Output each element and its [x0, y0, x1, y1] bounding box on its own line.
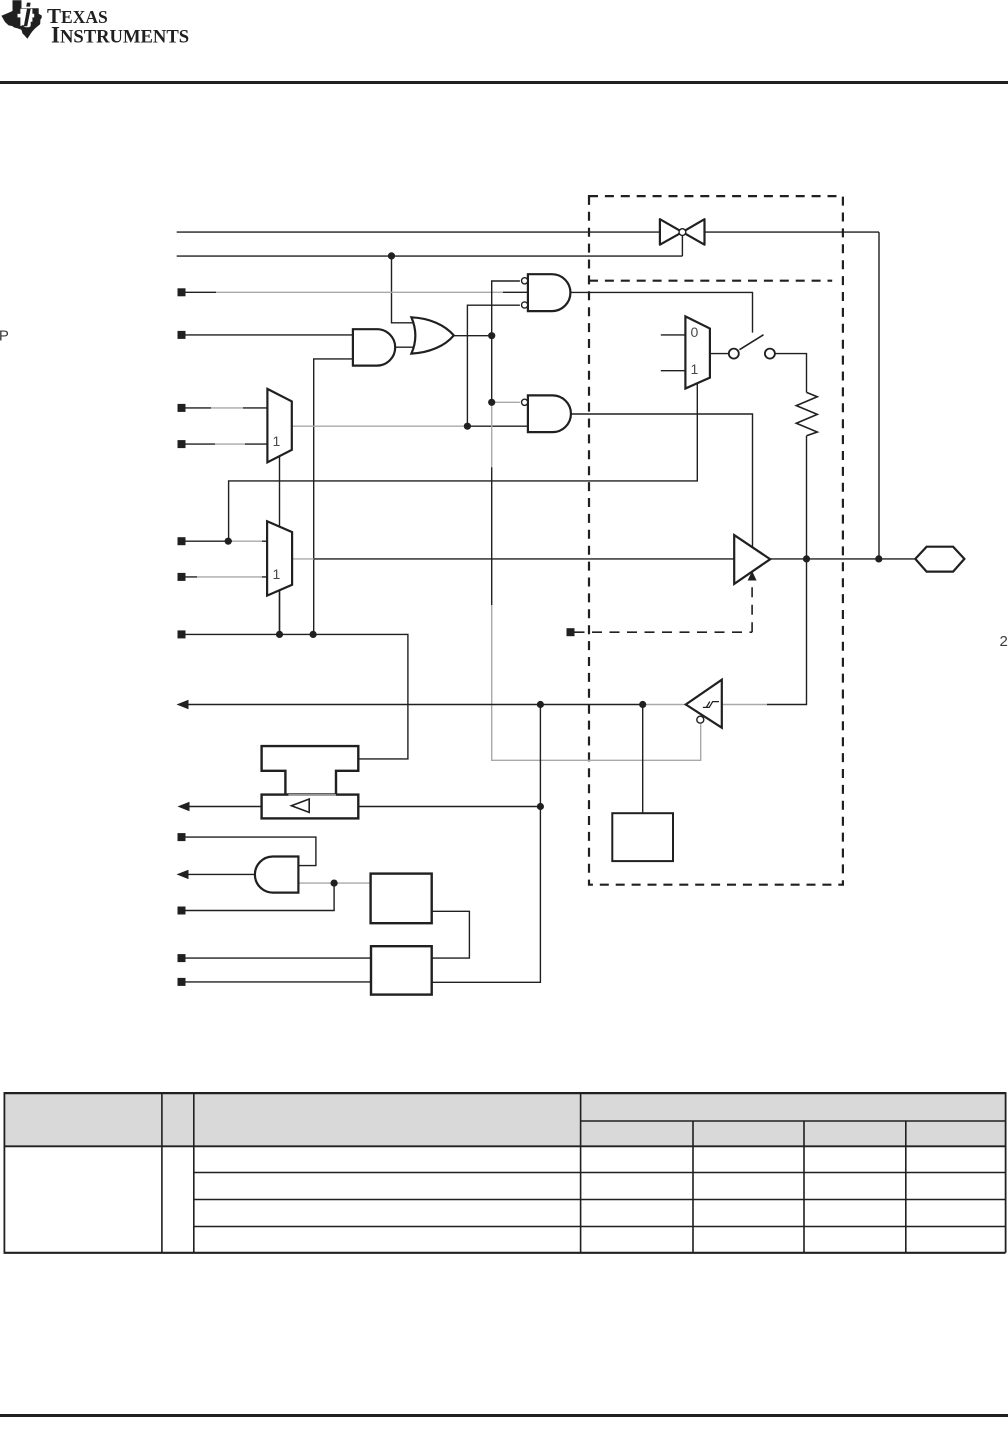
- wire: NAND G2 output to buffer enable: [571, 414, 753, 547]
- NAND gate G2: [528, 395, 571, 432]
- TI logo wordmark TEXAS INSTRUMENTS: [47, 4, 189, 48]
- junction node bus keeper line: [537, 803, 544, 810]
- wire: OR O1 output node: [454, 281, 520, 402]
- control terminal square (dashed net): [567, 628, 575, 636]
- wire: input 9 branch to B1 input net: [186, 883, 335, 910]
- input terminal square 1: [178, 288, 186, 296]
- wire: direction net to mux M3 select: [229, 383, 698, 541]
- svg-text:1: 1: [691, 361, 699, 377]
- AND gate A2 (left-pointing): [255, 857, 299, 893]
- input terminal square 4: [178, 440, 186, 448]
- svg-text:2: 2: [1000, 633, 1008, 650]
- input terminal square 3: [178, 404, 186, 412]
- wire: enable net grey path to Schmitt bubble: [492, 402, 701, 760]
- output arrow 3 (AND A2 output): [177, 870, 189, 879]
- wire: mux M1 select: [279, 456, 281, 634]
- wire: input 1 to NAND G1 middle input: [186, 291, 528, 293]
- bus keeper EN block: [262, 746, 359, 795]
- wire: bus keeper line left arrow to junction: [189, 806, 540, 808]
- junction node mux M1 output: [464, 423, 471, 430]
- input terminal square 10: [178, 954, 186, 962]
- AND gate A1: [353, 329, 395, 365]
- junction node select net A: [276, 631, 283, 638]
- pad P1 (hexagon): [915, 547, 964, 572]
- junction node on GND rail: [388, 252, 395, 259]
- parameter table header fill: [4, 1092, 1007, 1146]
- input terminal square 7: [178, 630, 186, 638]
- OR gate O1: [411, 317, 453, 353]
- svg-text:INSTRUMENTS: INSTRUMENTS: [51, 23, 189, 48]
- box B1: [371, 874, 432, 924]
- wire: net VCC rail (top horizontal): [177, 232, 879, 559]
- dashed module boundary box: [589, 196, 843, 885]
- wire: input 3 to mux M1 input 0: [186, 407, 268, 409]
- mux M2: [267, 521, 292, 595]
- dashed control line with arrow into buffer U1: [575, 581, 753, 633]
- wire: Schmitt output branch to flop box B3: [642, 705, 644, 814]
- junction node B1 input: [331, 880, 338, 887]
- box B2: [371, 946, 432, 994]
- wire: NAND G1 output to switch control: [571, 292, 753, 332]
- parameter table grid: [4, 1092, 1006, 1253]
- resistor R1: [796, 392, 817, 435]
- input terminal square 5: [178, 537, 186, 545]
- wire: AND A1 output to OR O1 input: [395, 346, 414, 348]
- input terminal square 8: [178, 833, 186, 841]
- input terminal square 9: [178, 907, 186, 915]
- TI logo bug: [1, 0, 41, 38]
- wire: pad net to Schmitt U2 input: [767, 559, 807, 705]
- bottom rule: [0, 1414, 1008, 1417]
- wire: mux M1 output to NAND G2 input: [292, 425, 468, 427]
- output buffer U1: [734, 535, 770, 584]
- bus keeper buffer block: [262, 795, 359, 819]
- input terminal square 11: [178, 978, 186, 986]
- output arrow 2 (bus keeper line): [178, 802, 190, 811]
- junction node direction net: [225, 538, 232, 545]
- inner dashed divider line: [589, 280, 832, 282]
- box B3 (flag register): [612, 813, 673, 861]
- junction node pad net B: [875, 555, 882, 562]
- output arrow 1 (input line): [177, 700, 189, 709]
- schmitt trigger U2: [686, 680, 722, 728]
- wire: AND A1 bottom input from select net: [314, 359, 353, 635]
- wire: AND A2 bottom input / box B1 input: [298, 882, 370, 884]
- wire: input 8 to AND A2 top input: [186, 837, 316, 866]
- wire: OR gate top input from rail: [392, 256, 417, 323]
- wire: input 2 to AND A1 top input: [186, 334, 353, 336]
- wire: switch S1 to resistor R1: [775, 354, 807, 393]
- junction node input line A: [639, 701, 646, 708]
- wire: AND A2 output to left arrow: [188, 873, 254, 875]
- wire: resistor R1 to pad net: [806, 436, 808, 559]
- mux M3 (0/1): [685, 316, 710, 388]
- svg-text:1: 1: [273, 566, 281, 582]
- ESD clamp D1 (bowtie): [660, 219, 705, 245]
- input terminal square 2: [178, 331, 186, 339]
- wire: input 5 to mux M2 input 0: [186, 540, 268, 542]
- junction node input line B: [537, 701, 544, 708]
- svg-text:0: 0: [691, 324, 699, 340]
- wire: NAND G1 bottom bubble input: [467, 305, 520, 426]
- wire: input 7 select net to bus keeper: [186, 634, 408, 759]
- wire: mux M2 select: [279, 589, 281, 634]
- wire: input line branch down to box B2 output: [432, 705, 541, 983]
- wire: buffer U1 output to pad: [770, 558, 915, 560]
- wire: box B1 output to box B2: [432, 911, 470, 958]
- switch S1: [729, 335, 775, 359]
- wire: input 4 to mux M1 input 1: [186, 443, 268, 445]
- wire: net GND rail (second horizontal): [177, 236, 683, 256]
- wire: mux M3 input stubs: [661, 335, 686, 371]
- input terminal square 6: [178, 573, 186, 581]
- mux M1: [267, 389, 291, 462]
- junction node select net B: [310, 631, 317, 638]
- wire: Schmitt U2 output to input line: [643, 704, 686, 706]
- wire: mux M2 output to output buffer U1: [292, 558, 314, 560]
- junction node pad net A: [803, 555, 810, 562]
- junction node OR output: [488, 332, 495, 339]
- wire: input 10 to box B2: [186, 957, 372, 959]
- junction node NAND G2 top input: [488, 399, 495, 406]
- svg-text:1: 1: [273, 433, 281, 449]
- wire: mux M3 output to switch S1: [710, 353, 729, 355]
- NAND gate G1: [528, 274, 571, 311]
- wire: input 11 to box B2: [186, 981, 372, 983]
- svg-text:P: P: [0, 328, 9, 345]
- top rule: [0, 81, 1008, 84]
- wire: input 6 to mux M2 input 1: [186, 576, 268, 578]
